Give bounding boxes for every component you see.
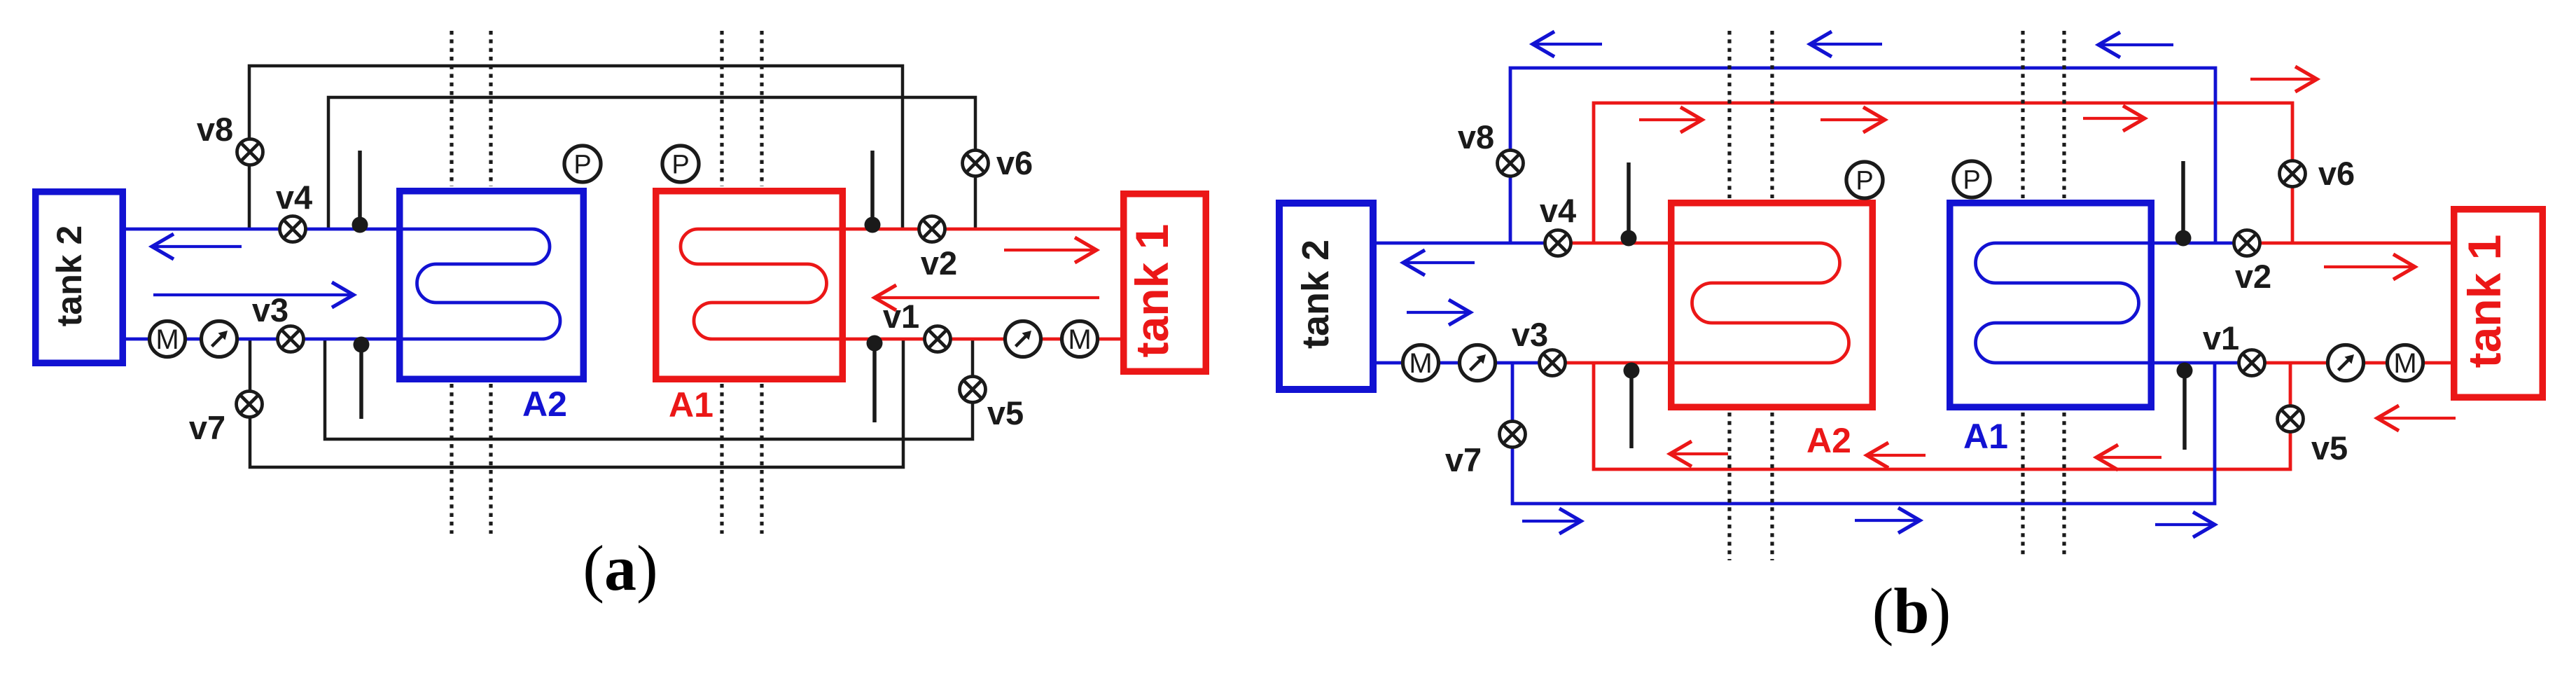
- svg-text:v8: v8: [197, 111, 233, 148]
- svg-text:v5: v5: [987, 394, 1024, 431]
- svg-text:v5: v5: [2311, 429, 2348, 466]
- svg-text:M: M: [1409, 348, 1432, 379]
- svg-text:v6: v6: [996, 144, 1033, 181]
- svg-text:(a): (a): [583, 532, 657, 604]
- svg-text:M: M: [1068, 324, 1091, 355]
- svg-text:A2: A2: [522, 385, 567, 424]
- svg-text:v7: v7: [1445, 441, 1482, 478]
- svg-text:(b): (b): [1872, 575, 1951, 646]
- svg-text:tank 2: tank 2: [1295, 240, 1337, 349]
- svg-text:v7: v7: [189, 409, 225, 446]
- svg-text:v1: v1: [883, 298, 919, 335]
- svg-text:v3: v3: [1512, 316, 1548, 353]
- svg-text:v3: v3: [252, 291, 288, 328]
- svg-text:A1: A1: [669, 385, 713, 424]
- svg-text:v1: v1: [2203, 319, 2239, 357]
- svg-text:tank 1: tank 1: [2458, 235, 2510, 368]
- svg-text:A1: A1: [1963, 417, 2008, 456]
- svg-text:M: M: [2393, 348, 2416, 379]
- svg-text:P: P: [1856, 167, 1873, 196]
- svg-text:v2: v2: [921, 244, 957, 282]
- svg-text:A2: A2: [1806, 421, 1851, 460]
- svg-text:P: P: [573, 151, 591, 180]
- svg-text:P: P: [1963, 166, 1980, 195]
- svg-text:M: M: [155, 324, 179, 355]
- svg-text:v4: v4: [276, 179, 312, 216]
- svg-text:tank 1: tank 1: [1126, 224, 1178, 358]
- svg-text:v4: v4: [1540, 192, 1576, 229]
- svg-text:v8: v8: [1458, 118, 1494, 155]
- svg-text:tank 2: tank 2: [50, 226, 89, 327]
- svg-text:v6: v6: [2318, 155, 2355, 192]
- svg-text:P: P: [671, 151, 689, 180]
- svg-text:v2: v2: [2235, 258, 2271, 295]
